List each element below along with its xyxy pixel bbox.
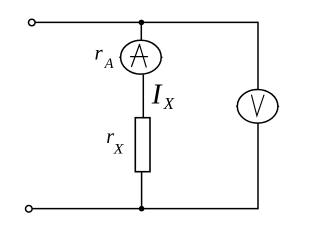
svg-text:X: X bbox=[112, 141, 124, 157]
svg-text:I: I bbox=[151, 78, 163, 110]
svg-text:X: X bbox=[163, 94, 175, 113]
svg-text:r: r bbox=[95, 41, 104, 65]
svg-text:A: A bbox=[104, 56, 114, 72]
